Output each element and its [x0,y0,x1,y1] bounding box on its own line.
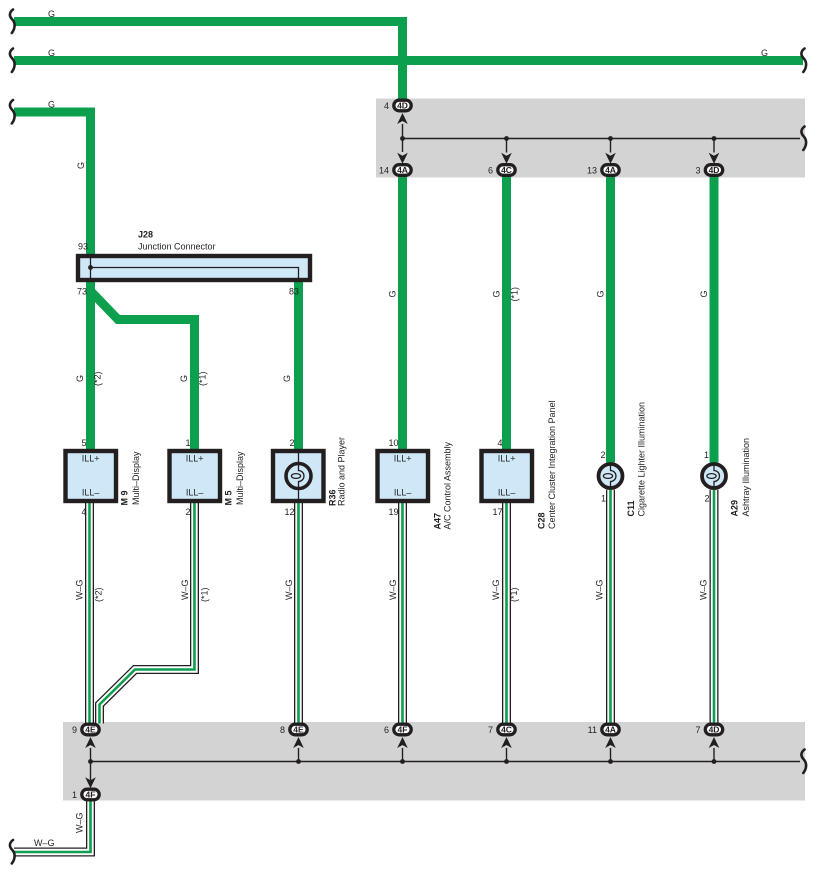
svg-text:73: 73 [77,287,87,297]
component C11 Cigarette Lighter Illumination (bulb) [599,464,623,488]
svg-text:ILL+: ILL+ [82,454,100,464]
wire G bus top band [403,124,801,153]
junction dot [400,759,405,764]
arrow up into 7 4C [501,737,512,748]
wire W-G from C11 pin 1 [606,490,615,724]
svg-text:A47: A47 [433,513,443,530]
wire W-G from A29 pin 2 [710,490,719,724]
svg-text:ILL+: ILL+ [186,454,204,464]
connector 4C pin 6 [498,165,515,176]
svg-text:(*1): (*1) [200,587,210,602]
svg-text:M 5: M 5 [224,490,234,505]
svg-text:4E: 4E [293,725,304,735]
svg-text:4F: 4F [398,725,408,735]
svg-text:6: 6 [488,166,493,176]
wire G from J28 pin 73 to M9 [86,282,95,450]
svg-text:1: 1 [601,494,606,504]
connector 4F pin 6 [394,724,411,735]
arrow down into 3 4D [709,153,720,164]
connector 4A pin 11 [602,724,619,735]
svg-text:3: 3 [695,166,700,176]
wire W-G from C28 pin 17 [502,503,511,724]
wire W-G from 4F pin 1 to left break [14,801,91,852]
arrows [85,113,719,788]
break symbol left bottom tail [10,840,15,864]
junction dot [712,759,717,764]
arrow down into 6 4C [501,153,512,164]
svg-text:G: G [76,162,86,169]
svg-text:ILL+: ILL+ [498,454,516,464]
wire G from 4A to C11 [606,176,615,463]
svg-text:G: G [492,290,502,297]
svg-text:W–G: W–G [699,579,709,600]
wire W-G from A47 pin 19 [398,503,407,724]
junction dot [608,136,613,141]
svg-text:2: 2 [185,507,190,517]
svg-text:13: 13 [587,166,597,176]
svg-text:W–G: W–G [74,579,84,600]
svg-text:G: G [761,48,768,58]
connector 4D pin 7 [705,724,722,735]
svg-text:W–G: W–G [180,579,190,600]
svg-text:ILL–: ILL– [394,488,412,498]
svg-text:Multi–Display: Multi–Display [131,451,141,505]
shield band top (instrument panel wire harness) [376,99,805,178]
arrow down into 13 4A [605,153,616,164]
break symbol right of bottom bus [801,750,806,774]
W-G wires (outlined white wire with green core) [14,490,714,852]
svg-text:G: G [48,48,55,58]
connector 4D pin 3 [705,165,722,176]
svg-text:(*2): (*2) [94,587,104,602]
svg-text:(*2): (*2) [93,371,103,386]
wire G horizontal 2 [14,56,803,65]
arrow up into 11 4A [605,737,616,748]
wire W-G from R36 pin 12 [294,503,303,724]
wire W-G from M5 pin 2 [100,503,195,724]
svg-text:W–G: W–G [34,838,55,848]
junction dot [296,759,301,764]
svg-text:4E: 4E [85,725,96,735]
svg-text:(*1): (*1) [198,371,208,386]
svg-text:5: 5 [81,438,86,448]
connector 4E pin 8 [290,724,307,735]
svg-text:ILL+: ILL+ [394,454,412,464]
svg-text:19: 19 [388,507,398,517]
svg-text:17: 17 [492,507,502,517]
svg-text:4D: 4D [709,165,720,175]
svg-text:4A: 4A [397,165,408,175]
svg-text:G: G [699,290,709,297]
svg-text:4C: 4C [501,165,512,175]
svg-text:G: G [596,290,606,297]
arrow up into 9 4E [85,737,96,748]
svg-text:8: 8 [280,725,285,735]
svg-text:ILL–: ILL– [498,488,516,498]
wire G from 4D to A29 [710,176,719,463]
connector 4A pin 13 [602,165,619,176]
svg-text:1: 1 [704,450,709,460]
junction dot [504,759,509,764]
svg-text:C28: C28 [537,512,547,529]
svg-text:ILL–: ILL– [186,488,204,498]
svg-text:G: G [48,9,55,19]
svg-text:A29: A29 [730,500,740,517]
arrow down into 14 4A [397,153,408,164]
svg-text:W–G: W–G [284,579,294,600]
arrow up into 7 4D [709,737,720,748]
arrow up into 4D [397,113,408,124]
break symbol right of top bus [801,127,806,151]
wire G from J28 pin 83 to R36 [294,282,303,450]
junction dot [400,136,405,141]
break symbol left wire 1 [10,10,15,34]
svg-text:Ashtray Illumination: Ashtray Illumination [741,438,751,517]
svg-text:Junction Connector: Junction Connector [138,242,216,252]
svg-text:4D: 4D [709,725,720,735]
svg-text:4C: 4C [501,725,512,735]
svg-text:W–G: W–G [491,579,501,600]
svg-text:4: 4 [81,507,86,517]
svg-text:2: 2 [704,494,709,504]
component C28 Center Cluster Integration Panel [482,451,533,501]
svg-text:1: 1 [185,438,190,448]
component R36 Radio and Player [273,451,324,501]
svg-text:4A: 4A [605,725,616,735]
svg-text:4: 4 [497,438,502,448]
connector ovals [82,100,723,800]
connector 4A pin 14 [394,165,411,176]
svg-text:93: 93 [78,242,88,252]
component M5 Multi-Display [170,451,221,501]
svg-text:W–G: W–G [75,812,85,833]
svg-text:C11: C11 [626,500,636,516]
svg-text:ILL–: ILL– [82,488,100,498]
wire G branch to M5 [91,291,195,450]
svg-text:4F: 4F [86,790,96,800]
break symbol right wire 2 [801,49,806,73]
shield band bottom [63,722,805,801]
svg-text:G: G [48,100,55,110]
svg-text:9: 9 [72,725,77,735]
bulb R36 [286,464,311,489]
svg-text:Cigarette Lighter Illumination: Cigarette Lighter Illumination [637,402,647,517]
arrow up into 6 4F [397,737,408,748]
svg-text:6: 6 [384,725,389,735]
wire G horizontal 1 (to node 4D) [14,22,403,101]
wire G from 4A to A47 [398,176,407,450]
svg-text:7: 7 [695,725,700,735]
svg-text:2: 2 [600,450,605,460]
svg-text:4D: 4D [397,101,408,111]
svg-text:(*1): (*1) [510,287,520,302]
component M9 Multi-Display [66,451,117,501]
svg-text:10: 10 [388,438,398,448]
junction dot [88,759,93,764]
break symbol left wire 3 [10,100,15,124]
svg-text:83: 83 [289,287,299,297]
svg-text:M 9: M 9 [120,490,130,505]
connector 4D pin 4 [394,100,411,111]
svg-text:G: G [179,375,189,382]
svg-text:4A: 4A [605,165,616,175]
wire bus bottom band [91,748,801,780]
component A47 A/C Control Assembly [378,451,429,501]
connector 4C pin 7 [498,724,515,735]
svg-text:G: G [75,375,85,382]
svg-text:Multi–Display: Multi–Display [235,451,245,505]
arrow down into 1 4F [85,777,96,788]
junction connector J28 [78,256,310,280]
svg-text:J28: J28 [138,230,153,240]
junction dot [608,759,613,764]
svg-text:W–G: W–G [388,579,398,600]
svg-text:11: 11 [588,725,597,735]
svg-text:G: G [388,290,398,297]
connector 4E pin 9 [82,724,99,735]
svg-text:4: 4 [384,101,389,111]
svg-text:14: 14 [379,166,389,176]
svg-text:W–G: W–G [595,579,605,600]
wire G from 4C to C28 [502,176,511,450]
component A29 Ashtray Illumination (bulb) [702,464,726,488]
svg-text:2: 2 [289,438,294,448]
junction dot [504,136,509,141]
svg-text:1: 1 [72,790,77,800]
arrow up into 8 4E [293,737,304,748]
svg-text:(*1): (*1) [509,587,519,602]
break symbol left wire 2 [10,49,15,73]
svg-text:Center Cluster Integration Pan: Center Cluster Integration Panel [547,400,557,529]
svg-text:G: G [282,375,292,382]
svg-text:12: 12 [284,507,294,517]
svg-text:Radio and Player: Radio and Player [337,437,347,506]
connector 4F pin 1 [82,789,99,800]
wire G horizontal 3 into junction connector [14,112,91,254]
svg-text:A/C Control Assembly: A/C Control Assembly [443,441,453,529]
junction dot [712,136,717,141]
svg-text:7: 7 [488,725,493,735]
wire W-G from M9 pin 4 [85,503,94,724]
